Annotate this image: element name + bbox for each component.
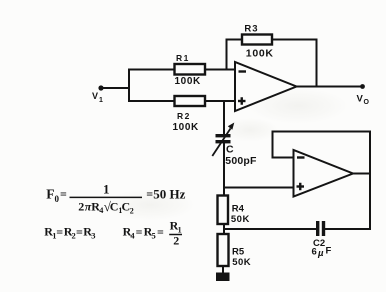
node V0 — [357, 84, 370, 106]
wire junction to U2 non-inverting input — [223, 187, 294, 189]
svg-text:=: = — [146, 187, 153, 201]
svg-text:100K: 100K — [173, 122, 199, 133]
wire R3 right leg — [272, 40, 317, 88]
svg-text:4: 4 — [99, 206, 103, 215]
capacitor C2 — [312, 221, 332, 259]
formula R4 = R5 = R1/2 — [123, 219, 182, 248]
wire splitter to R2 — [128, 100, 175, 102]
svg-text:2: 2 — [130, 207, 134, 216]
wire R2 to U1 non-inverting input — [205, 100, 235, 102]
svg-text:R2: R2 — [177, 111, 191, 121]
wire R3 left leg — [227, 40, 243, 70]
wire non-inverting node down to C — [223, 101, 225, 134]
op-amp U2 — [294, 150, 354, 197]
svg-text:µ: µ — [317, 248, 324, 259]
wire C down to R4 — [223, 143, 225, 196]
node V1 — [92, 85, 104, 104]
svg-text:5: 5 — [152, 230, 156, 240]
svg-text:=: = — [136, 225, 143, 239]
svg-text:R1: R1 — [176, 53, 190, 63]
wire R1 to U1 inverting input — [205, 69, 235, 71]
svg-text:V: V — [357, 94, 364, 105]
formula F0 = 1/(2piR4 sqrt(C1C2)) = 50 Hz — [46, 182, 185, 216]
resistor R5 — [218, 234, 252, 268]
svg-text:=: = — [56, 225, 63, 239]
svg-text:3: 3 — [91, 230, 95, 240]
svg-text:R4: R4 — [232, 204, 245, 215]
svg-text:50K: 50K — [232, 257, 251, 268]
svg-text:F: F — [326, 246, 332, 257]
svg-text:C: C — [226, 144, 234, 156]
resistor R3 — [242, 24, 274, 60]
svg-text:=: = — [157, 225, 164, 239]
svg-text:1: 1 — [99, 97, 103, 104]
wire splitter to R1 — [128, 69, 175, 71]
svg-text:F: F — [46, 187, 54, 202]
svg-text:V: V — [92, 91, 98, 101]
resistor R1 — [175, 53, 206, 87]
resistor R2 — [173, 96, 206, 133]
formula R1 = R2 = R3 — [44, 225, 95, 241]
svg-text:=: = — [76, 225, 83, 239]
svg-text:Hz: Hz — [170, 187, 186, 202]
resistor R4 — [218, 196, 250, 226]
svg-text:O: O — [364, 99, 370, 106]
ground — [216, 273, 230, 282]
wire U2 feedback loop — [273, 132, 371, 230]
svg-text:50: 50 — [153, 187, 166, 202]
svg-text:=: = — [60, 187, 67, 201]
wire V1 to splitter — [101, 87, 129, 89]
svg-text:R5: R5 — [232, 247, 245, 258]
wire R5 to ground — [222, 266, 224, 273]
svg-text:R3: R3 — [244, 24, 258, 35]
wire U1 output to V0 — [296, 86, 363, 88]
wire R4 to R5 — [223, 224, 225, 234]
svg-text:2: 2 — [173, 233, 179, 247]
wire C2 right to loop — [325, 228, 371, 230]
wire U2 output — [353, 173, 372, 175]
svg-text:6: 6 — [312, 247, 317, 258]
capacitor C (variable, 500pF) — [212, 123, 257, 167]
svg-text:2: 2 — [78, 199, 84, 213]
svg-text:500pF: 500pF — [225, 155, 257, 167]
svg-text:100K: 100K — [175, 76, 201, 87]
wire splitter vertical — [128, 69, 130, 103]
svg-text:100K: 100K — [246, 47, 274, 59]
op-amp U1 — [235, 62, 297, 111]
wire junction to C2 — [223, 228, 316, 230]
svg-text:C: C — [110, 199, 119, 213]
svg-text:1: 1 — [103, 182, 110, 197]
svg-text:50K: 50K — [231, 214, 250, 225]
svg-text:0: 0 — [55, 194, 60, 204]
